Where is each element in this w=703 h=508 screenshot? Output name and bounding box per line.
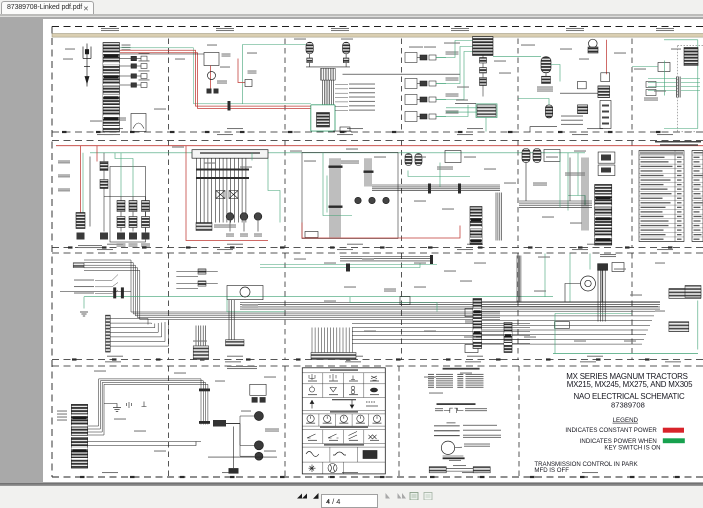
green net link 4 bbox=[436, 104, 468, 116]
connector pair caption bbox=[453, 465, 466, 466]
wire id label bbox=[570, 222, 582, 223]
p4 green link bbox=[439, 162, 441, 186]
splice word label bbox=[449, 459, 461, 460]
splice note label bbox=[464, 443, 490, 446]
engine control module green box bbox=[311, 104, 335, 130]
wire id label bbox=[304, 160, 316, 161]
panel divider band1 x632 bbox=[631, 38, 633, 132]
trans solenoid ring 3 bbox=[254, 212, 262, 220]
fuse chain below stack bbox=[480, 55, 487, 96]
wire id label bbox=[464, 156, 476, 157]
wire id label bbox=[484, 168, 496, 169]
controller title bar bbox=[200, 152, 260, 154]
wire sample line 2 bbox=[434, 429, 460, 431]
controller bottom comb bbox=[196, 222, 212, 230]
offpage ticks bottom bbox=[80, 475, 680, 477]
next page nav button disabled bbox=[386, 493, 391, 499]
wire id label bbox=[574, 150, 586, 151]
last page nav button disabled bbox=[398, 493, 407, 499]
solenoid stem bbox=[257, 221, 259, 232]
wire id label bbox=[444, 42, 460, 43]
panel6 bottom component box bbox=[600, 100, 611, 128]
wire id label bbox=[429, 392, 443, 393]
wire sample label 1 bbox=[463, 424, 497, 425]
band2 left label bbox=[58, 188, 70, 191]
band3 footer label bbox=[227, 355, 243, 356]
red sender wire bbox=[606, 39, 608, 73]
flasher box band3 bbox=[612, 262, 624, 271]
wire id label bbox=[654, 90, 666, 91]
p5 green vert 1 bbox=[567, 152, 569, 210]
band3 green long wire bbox=[84, 295, 553, 297]
band1 footer label bbox=[587, 128, 603, 129]
cab label bbox=[78, 245, 102, 248]
comb green outline bbox=[476, 103, 497, 117]
wire id label bbox=[409, 46, 423, 47]
panel6 component pair bbox=[646, 81, 656, 95]
wire id label bbox=[424, 330, 436, 331]
symbol glyphs switch row bbox=[306, 450, 377, 458]
wire id label bbox=[521, 44, 535, 45]
p4 down bundle bbox=[496, 192, 502, 240]
p5 component box upper bbox=[598, 152, 615, 163]
page number combo box bbox=[321, 494, 378, 508]
lamp feed wire bbox=[226, 423, 254, 456]
band1 sensor group 3 bbox=[405, 94, 446, 104]
panel divider band4 x285 bbox=[284, 366, 286, 477]
band1 header label bbox=[451, 28, 469, 31]
connector pair symbol band4 bbox=[252, 397, 266, 403]
legend green bar bbox=[663, 438, 685, 443]
band3 right comb A bbox=[669, 288, 701, 298]
wire id label bbox=[524, 336, 536, 337]
lamp chain blob bbox=[142, 232, 150, 239]
band3 inline connector bars bbox=[113, 287, 124, 298]
p5 wire label bbox=[561, 123, 583, 124]
sensor group label bbox=[446, 110, 459, 113]
band3 left comb stack bbox=[106, 315, 111, 352]
band3 footer label bbox=[347, 355, 363, 356]
panel divider band3 x401.5 bbox=[401, 253, 403, 360]
wire callout label bbox=[349, 83, 375, 84]
maxi fuse connector pair 1 bbox=[120, 56, 148, 61]
rotary stem bbox=[565, 283, 581, 301]
cab enclosure outline bbox=[110, 166, 146, 242]
p3 green vertical2 bbox=[326, 175, 328, 212]
fuel sender pill bbox=[541, 56, 551, 72]
controller green weave bbox=[251, 152, 253, 160]
callout leader bbox=[335, 100, 348, 102]
band2 footer label bbox=[347, 243, 363, 244]
wire callout label bbox=[349, 109, 375, 110]
green left link2 bbox=[446, 111, 477, 113]
band4 top labels bbox=[227, 366, 257, 369]
diode label bbox=[248, 70, 257, 73]
wire id label bbox=[414, 200, 426, 201]
boundary2 label bbox=[97, 249, 113, 250]
harness connector pair legend bbox=[429, 466, 490, 472]
wire id label bbox=[290, 150, 302, 151]
ignition switch inner bbox=[585, 280, 591, 286]
left lamp blob bbox=[77, 232, 85, 239]
pill stems bbox=[306, 53, 350, 66]
svg-text:MX215, MX245, MX275, AND MX305: MX215, MX245, MX275, AND MX305 bbox=[567, 380, 693, 389]
band3 label mid bbox=[384, 288, 396, 291]
black chain wire bbox=[89, 156, 91, 226]
fuse pair label bbox=[139, 52, 150, 53]
constant power red feed B bbox=[120, 52, 311, 108]
band3 green from ground bbox=[83, 296, 85, 308]
lamp chain blob bbox=[117, 232, 125, 239]
start relay box bbox=[204, 52, 219, 65]
trans solenoid ring 1 bbox=[226, 212, 234, 220]
band4 bottom blob bbox=[229, 468, 239, 474]
wire callout label bbox=[349, 105, 375, 106]
p5 labels bbox=[565, 172, 585, 175]
wire id label bbox=[324, 262, 336, 263]
black feed to relay cluster bbox=[120, 53, 204, 55]
boundary1 label bbox=[572, 134, 588, 135]
panel divider band4 x519 bbox=[518, 366, 520, 477]
band3 wire to dark comp bbox=[601, 270, 603, 301]
band3 small comp mid bbox=[400, 296, 410, 304]
p5 black vertical bbox=[569, 157, 571, 201]
color abbreviation table bbox=[428, 373, 484, 387]
callout leader line bbox=[95, 290, 118, 293]
connector mate label right bbox=[465, 408, 487, 411]
green to lower pill bbox=[518, 98, 549, 104]
dotted enclosure panel6 bbox=[678, 45, 703, 132]
hitch control stack bbox=[595, 184, 612, 245]
wire id label bbox=[215, 380, 225, 381]
callout leader bbox=[335, 109, 348, 111]
band3 green top pair 1 bbox=[260, 263, 437, 265]
p3 tick bar A1 bbox=[329, 165, 343, 167]
wire id label bbox=[614, 268, 626, 269]
offpage ticks boundary1 bbox=[62, 130, 661, 132]
green top-right feed bbox=[243, 43, 312, 45]
cab roof connector stack upper bbox=[71, 404, 87, 435]
red branch mid bbox=[238, 58, 245, 82]
panel divider band3 x168.5 bbox=[168, 253, 170, 360]
wire id label bbox=[264, 450, 276, 451]
band2 left label bbox=[58, 174, 70, 177]
band4 right labels bbox=[265, 428, 279, 431]
p5 wire label bbox=[561, 119, 583, 120]
offpage ticks boundary2 bbox=[68, 246, 673, 248]
work lamp 2 bbox=[254, 440, 263, 449]
key switch circle bbox=[208, 71, 216, 79]
wire id label bbox=[460, 372, 472, 373]
p5 pill 2 bbox=[533, 148, 541, 162]
band4 stack side wire2 bbox=[88, 441, 196, 445]
wire callout label bbox=[349, 87, 375, 88]
callout leader bbox=[335, 105, 348, 107]
boundary3 label bbox=[665, 361, 681, 362]
band4 main harness bundle bbox=[88, 378, 208, 434]
boundary3 label bbox=[465, 361, 481, 362]
panel divider band2 x518 bbox=[517, 140, 519, 247]
boundary1 label bbox=[457, 134, 473, 135]
band1 sensor group 2 bbox=[405, 78, 446, 88]
wire sample small label bbox=[447, 422, 456, 423]
green vertical drop bbox=[242, 44, 244, 104]
p5 black drop bbox=[525, 162, 527, 201]
panel6 green fan right bbox=[681, 78, 700, 90]
panel divider band3 x518 bbox=[517, 253, 519, 360]
band boundary 2b bbox=[52, 252, 703, 254]
wire id label bbox=[444, 270, 456, 271]
maxi fuse connector pair 2 bbox=[120, 63, 148, 68]
band2 footer label bbox=[587, 243, 603, 244]
relay pin label bbox=[222, 53, 231, 56]
p5 box upper interior bbox=[601, 154, 611, 160]
panel divider band1 x401.5 bbox=[401, 38, 403, 132]
panel divider band1 x518 bbox=[517, 38, 519, 132]
band3 left harness fan and trunk bbox=[84, 260, 500, 320]
symbol legend table frame bbox=[302, 367, 385, 473]
horn label bbox=[118, 117, 126, 120]
stack bottom label bbox=[104, 134, 120, 135]
wire id label bbox=[220, 66, 230, 67]
symbol glyphs row3 arrows bbox=[310, 400, 378, 409]
tab bar bottom line bbox=[0, 14, 703, 16]
band3 top pair connector bbox=[346, 263, 350, 271]
band3 small box mid bbox=[555, 321, 570, 328]
band3 green bottom long bbox=[553, 352, 698, 354]
band4 fork symbol small bbox=[127, 402, 132, 408]
band3 footer label bbox=[107, 355, 123, 356]
band boundary 1a bbox=[52, 131, 703, 133]
separator line above status bar bbox=[0, 483, 703, 486]
symbol glyphs row1 fork symbols bbox=[309, 374, 377, 381]
previous view icon bbox=[410, 493, 418, 501]
fuse chain blob bbox=[100, 232, 108, 239]
band3 dark riser stack bbox=[504, 322, 512, 352]
wire id label bbox=[247, 52, 257, 53]
green left link1 bbox=[446, 106, 477, 108]
battery equalizer connector stack bbox=[103, 42, 120, 132]
trans solenoid ring 2 bbox=[240, 212, 248, 220]
wire id label bbox=[362, 258, 374, 259]
panel divider band1 x168.5 bbox=[168, 38, 170, 132]
work lamp 3 bbox=[255, 452, 263, 460]
wire id label bbox=[424, 376, 436, 377]
tan battery power bus bbox=[52, 33, 703, 37]
wire id label bbox=[560, 48, 572, 49]
band1 sensor group 1 bbox=[405, 52, 446, 62]
p3 green vertical bbox=[323, 152, 352, 215]
lamp chain label bbox=[129, 243, 138, 246]
p5 riser bundle bbox=[582, 157, 588, 230]
wire id label bbox=[671, 48, 681, 49]
band3 trunk drop bbox=[196, 325, 206, 345]
band2 footer label bbox=[107, 243, 123, 244]
green p5 link bbox=[551, 64, 560, 81]
wire id label bbox=[464, 336, 476, 337]
wire id label bbox=[364, 330, 376, 331]
p4 stack bbox=[470, 206, 482, 244]
chain top feed bbox=[104, 195, 146, 197]
sensor group label bbox=[446, 51, 459, 54]
controller red drop bbox=[186, 145, 268, 240]
key-on green bus bbox=[90, 151, 585, 153]
p4 component box bbox=[445, 150, 461, 162]
p5 feed bundle bbox=[519, 201, 592, 207]
callout leader bbox=[335, 83, 348, 85]
long exit wire bbox=[530, 126, 557, 131]
p5 wire label bbox=[561, 115, 583, 116]
relay box with X 1 bbox=[216, 190, 225, 198]
panel divider band2 x168.5 bbox=[168, 140, 170, 247]
maxi fuse connector pair 3 bbox=[120, 73, 148, 78]
solenoid label bbox=[254, 233, 262, 236]
wire id label bbox=[456, 99, 468, 100]
wire sample label 3 bbox=[463, 434, 501, 437]
wire sample line 1 bbox=[434, 424, 460, 426]
p3 tick bar A2 bbox=[329, 205, 343, 207]
band3 green jog A bbox=[350, 296, 437, 311]
p5 component box bbox=[544, 149, 560, 161]
wire id label bbox=[207, 44, 217, 45]
wire id label bbox=[655, 262, 665, 263]
wire id label bbox=[634, 68, 646, 69]
svg-text:KEY SWITCH IS ON: KEY SWITCH IS ON bbox=[604, 444, 660, 451]
band2 footer label bbox=[467, 243, 483, 244]
band boundary 2a bbox=[52, 246, 703, 248]
callout leader line bbox=[95, 282, 118, 286]
band1 header label bbox=[216, 28, 234, 31]
fuse and connector location table bbox=[639, 150, 684, 241]
controller green down bbox=[268, 158, 280, 222]
band3 gauge box bbox=[227, 285, 263, 299]
left lamp connector bbox=[76, 212, 85, 228]
wire id label bbox=[538, 256, 550, 257]
p3 round connector 3 bbox=[383, 197, 389, 203]
p3 round connector 1 bbox=[355, 197, 361, 203]
cab roof connector stack lower bbox=[71, 437, 87, 468]
wire id label bbox=[264, 376, 276, 377]
green long link bbox=[493, 55, 541, 57]
band1 sensor group 4 bbox=[405, 111, 446, 121]
band3 right small comp B bbox=[465, 344, 478, 352]
band boundary 1b bbox=[52, 139, 703, 141]
connector mate label left bbox=[435, 408, 443, 411]
controller tick bar 2 bbox=[196, 177, 249, 179]
band3 center bottom comb bbox=[311, 352, 356, 359]
small component band1 p5 bbox=[578, 81, 587, 88]
wire id label bbox=[175, 58, 185, 59]
wire id label bbox=[614, 52, 626, 53]
lower pill connector bbox=[545, 104, 552, 117]
band3 footer label bbox=[587, 355, 603, 356]
fuse pair label bbox=[139, 60, 150, 61]
wire id label bbox=[424, 46, 436, 47]
key-on green feed bbox=[120, 47, 311, 103]
far right comb band3 bbox=[685, 285, 701, 297]
browser tab bar bbox=[0, 0, 703, 14]
second fuse table clipped bbox=[692, 150, 703, 241]
band1 footer label bbox=[227, 128, 243, 129]
svg-text:INDICATES CONSTANT POWER: INDICATES CONSTANT POWER bbox=[565, 427, 657, 434]
wire id label bbox=[94, 370, 106, 371]
panel6 green fan left bbox=[648, 78, 676, 90]
band4 connector tick lower bbox=[199, 421, 210, 424]
module bottom exit wire bbox=[333, 130, 351, 133]
bottom footer label bbox=[342, 472, 358, 473]
panel divider band3 x632 bbox=[631, 253, 633, 360]
panel divider band2 x632 bbox=[631, 140, 633, 247]
green-edged comb connector bbox=[477, 104, 496, 116]
symbol glyphs last row bbox=[309, 463, 338, 472]
boundary2 label bbox=[657, 249, 673, 250]
color abbreviation table title bbox=[443, 367, 480, 369]
p4 labels bbox=[437, 166, 453, 169]
band3 right small comp A bbox=[465, 308, 478, 316]
green mid link p6 bbox=[664, 60, 666, 95]
band4 crossing block bbox=[213, 420, 226, 427]
callout leader bbox=[335, 96, 348, 98]
wire id label bbox=[457, 86, 469, 87]
p5 green jog bbox=[568, 195, 585, 205]
green net link 2 bbox=[436, 46, 473, 83]
band1 footer label bbox=[107, 128, 123, 129]
band3 green right riser bbox=[697, 300, 699, 349]
callout leader bbox=[335, 87, 348, 89]
wire id label bbox=[624, 340, 636, 341]
band3 nested L wires bbox=[110, 318, 168, 346]
wire id label bbox=[499, 72, 511, 73]
band3 green mid link bbox=[555, 312, 632, 314]
band3 center comb teeth bbox=[312, 327, 352, 352]
band3 long trunk right bbox=[240, 302, 660, 309]
panel3 long wire bbox=[343, 73, 461, 75]
p4 tick bars bbox=[428, 183, 461, 193]
boundary2 label bbox=[457, 249, 473, 250]
wire id label bbox=[546, 156, 558, 157]
wire id label bbox=[574, 340, 586, 341]
panel6 labels bbox=[644, 97, 658, 100]
pill stem bbox=[545, 72, 547, 75]
transmission controller header box bbox=[192, 149, 268, 158]
relay lower connector pair bbox=[207, 88, 219, 93]
band3 footer label bbox=[467, 355, 483, 356]
bottom footer label bbox=[222, 472, 238, 473]
wire sample label 2 bbox=[463, 429, 501, 430]
sender connector stack bbox=[598, 85, 610, 97]
band3 mid riser bbox=[517, 255, 521, 301]
wire id label bbox=[294, 258, 306, 259]
band3 right label bbox=[600, 254, 616, 257]
wire callout label bbox=[349, 92, 375, 93]
panel divider band2 x401.5 bbox=[401, 140, 403, 247]
green chain drop bbox=[120, 152, 122, 196]
band3 lower trunk extension bbox=[352, 323, 530, 343]
solenoid stem bbox=[243, 221, 245, 232]
splice bar symbol bbox=[443, 455, 464, 457]
wire sample line 3 bbox=[434, 434, 460, 436]
band4 small marks bbox=[142, 401, 147, 406]
lamp feed wire bbox=[226, 423, 254, 445]
terminal hatch block bbox=[321, 68, 336, 80]
connector mate glyph bbox=[444, 408, 464, 413]
wire id label bbox=[341, 38, 353, 39]
comb label bbox=[193, 340, 207, 341]
stack left labels bbox=[57, 410, 67, 420]
band2 crossover bundle bbox=[372, 185, 402, 191]
band1 footer label bbox=[467, 128, 483, 129]
green jog bbox=[115, 152, 133, 196]
